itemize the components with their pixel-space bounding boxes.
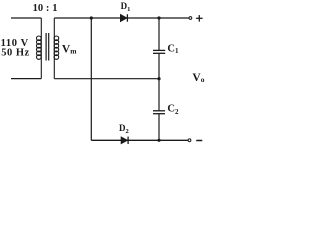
diode D2 — [121, 137, 128, 144]
wire: bottom rail to - terminal — [91, 139, 188, 141]
capacitor C2 — [153, 79, 165, 141]
wire: vertical from top rail down to bottom rail — [90, 18, 92, 140]
label + — [196, 15, 203, 22]
svg-text:10: 10 — [33, 3, 44, 14]
svg-text:50 Hz: 50 Hz — [1, 48, 29, 59]
capacitor C1 — [153, 18, 165, 79]
terminal: - output (open circle) — [188, 139, 191, 142]
node: bottom rail / C2 junction — [157, 139, 160, 142]
label - — [196, 140, 202, 142]
diode D1 — [120, 14, 127, 21]
wire: AC input bottom stub — [11, 78, 41, 80]
node: junction of secondary top and bridge vertical — [90, 16, 93, 19]
wire: AC input top stub — [11, 17, 41, 19]
wire: secondary bottom to capacitor midpoint — [54, 78, 159, 80]
transformer T1 secondary winding — [54, 18, 59, 79]
transformer T1 primary winding — [37, 18, 42, 79]
node: top rail / C1 junction — [157, 16, 160, 19]
transformer T1 core — [46, 33, 49, 61]
terminal: + output (open circle) — [189, 17, 192, 20]
node: capacitor midpoint junction — [157, 77, 160, 80]
svg-text::: : — [46, 3, 50, 14]
svg-text:1: 1 — [52, 3, 57, 14]
wire: top rail from secondary to + terminal — [54, 17, 189, 19]
